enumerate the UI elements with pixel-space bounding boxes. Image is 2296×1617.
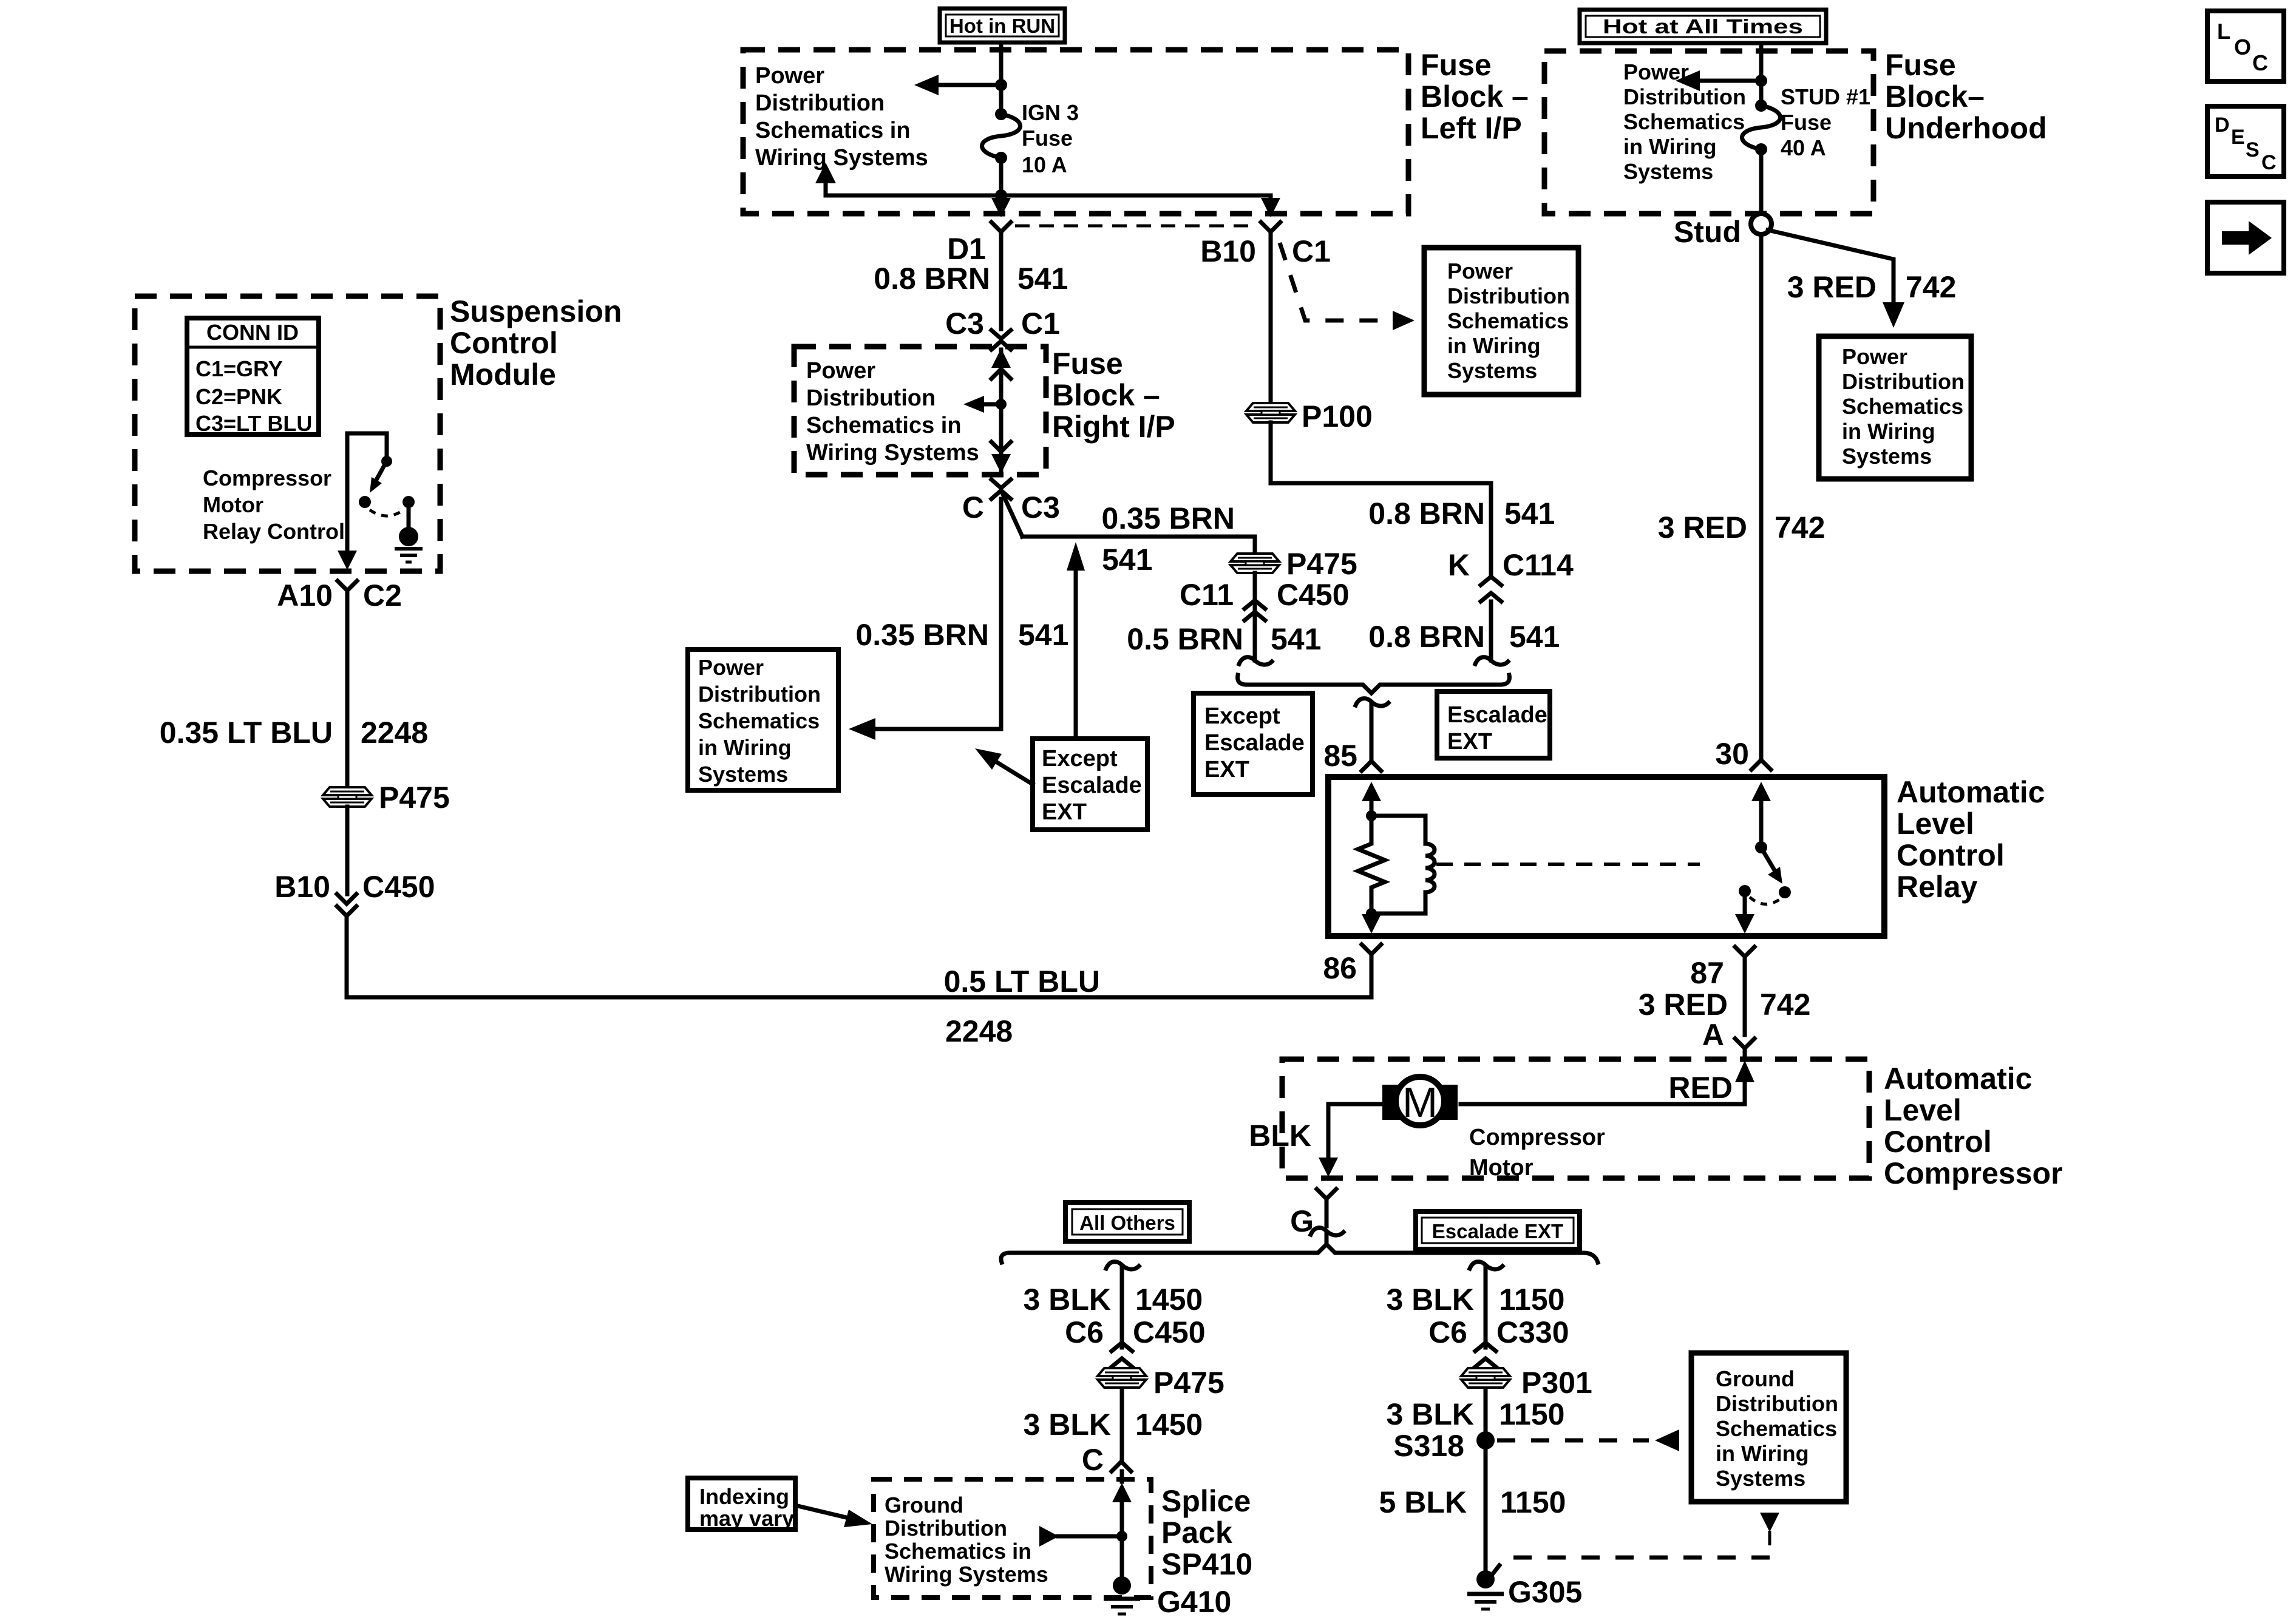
wire B10 exit arrow (1261, 195, 1280, 217)
svg-text:C114: C114 (1503, 548, 1574, 582)
node relay switch throw contact dot (1779, 886, 1791, 898)
svg-text:40 A: 40 A (1781, 135, 1826, 160)
svg-text:K: K (1448, 548, 1470, 582)
svg-text:85: 85 (1323, 739, 1357, 773)
wire end curl (C450 branch) (1239, 657, 1272, 665)
svg-text:Systems: Systems (698, 762, 788, 787)
svg-text:Underhood: Underhood (1885, 111, 2047, 145)
svg-text:Schematics: Schematics (1447, 308, 1569, 333)
svg-text:Ground: Ground (1716, 1366, 1795, 1391)
svg-text:A10: A10 (277, 578, 333, 612)
svg-text:Fuse: Fuse (1885, 48, 1956, 82)
wire arrowhead S318 reference (1655, 1429, 1679, 1451)
wire from Hot at All Times into fuse block (1759, 43, 1764, 104)
svg-text:Distribution: Distribution (1842, 369, 1965, 394)
svg-text:541: 541 (1271, 622, 1321, 656)
wire module internal switch feed (347, 433, 387, 457)
svg-text:in Wiring: in Wiring (1716, 1441, 1809, 1466)
wire exit arrow bottom (right IP box) (991, 442, 1011, 473)
compressor dashed box (1282, 1059, 1869, 1178)
node relay coil bottom junction dot (1366, 908, 1377, 919)
svg-text:EXT: EXT (1204, 757, 1249, 782)
svg-text:C: C (2261, 151, 2277, 174)
svg-text:P475: P475 (1286, 547, 1357, 581)
wire all-others branch to C450 (1120, 1267, 1124, 1347)
node connector half A10 (338, 581, 357, 591)
node connector half B10 (1261, 222, 1280, 232)
svg-text:C450: C450 (362, 870, 435, 904)
wire C1 into right IP fuse block (999, 350, 1004, 364)
svg-text:SP410: SP410 (1161, 1547, 1252, 1581)
svg-text:C1: C1 (1021, 307, 1060, 341)
svg-text:Except: Except (1042, 746, 1118, 771)
node brace splitting G to branches (1001, 1244, 1598, 1263)
svg-text:541: 541 (1509, 620, 1560, 654)
wire from Hot in RUN into fuse block (999, 42, 1004, 113)
svg-text:Pack: Pack (1161, 1516, 1232, 1550)
node splice S318 dot (1476, 1431, 1495, 1449)
svg-text:Automatic: Automatic (1884, 1062, 2032, 1096)
connector P100 (1246, 403, 1295, 422)
wire through right IP fuse block (999, 364, 1004, 475)
node connector B10/C450 double chevron down (337, 894, 356, 916)
svg-text:541: 541 (1017, 262, 1068, 296)
svg-text:Motor: Motor (203, 492, 263, 517)
node Escalade EXT callout (relay) (1437, 691, 1550, 758)
svg-text:Left I/P: Left I/P (1421, 111, 1522, 145)
svg-text:RED: RED (1668, 1071, 1733, 1105)
wire C330 to P301 (1484, 1372, 1488, 1578)
node connector pair C/C3 (991, 480, 1011, 499)
relay box (1328, 777, 1884, 936)
svg-text:E: E (2231, 126, 2245, 149)
svg-text:C: C (962, 490, 984, 524)
svg-text:Systems: Systems (1447, 358, 1537, 383)
svg-text:Control: Control (1897, 838, 2005, 872)
svg-text:Escalade: Escalade (1204, 730, 1305, 756)
svg-text:Wiring Systems: Wiring Systems (885, 1562, 1048, 1587)
svg-text:B10: B10 (274, 870, 330, 904)
node junction dot on IGN3 feed (995, 79, 1007, 91)
wire dashed reference from C1 (1280, 243, 1391, 320)
svg-text:Distribution: Distribution (755, 90, 885, 116)
node DESC legend box (2207, 106, 2284, 177)
svg-text:0.8 BRN: 0.8 BRN (1368, 497, 1485, 531)
ground ball G410 (1113, 1576, 1131, 1595)
svg-text:0.8 BRN: 0.8 BRN (874, 262, 990, 296)
wire B10 to P100 (1269, 232, 1273, 403)
svg-text:L: L (2217, 19, 2230, 44)
fuse IGN 3 10A (982, 108, 1021, 164)
svg-text:Block–: Block– (1885, 80, 1985, 114)
svg-text:D: D (2215, 114, 2230, 137)
wire relay pin 85 to box bottom arrow (1362, 914, 1381, 934)
svg-text:Relay Control: Relay Control (203, 519, 345, 544)
svg-text:Fuse: Fuse (1022, 126, 1073, 151)
svg-text:C6: C6 (1428, 1315, 1467, 1349)
fuse block left I/P dashed box (743, 50, 1408, 214)
wire to relay pin 85 (1370, 704, 1374, 760)
node Fuse Block Right I/P label (1052, 347, 1175, 444)
svg-text:IGN 3: IGN 3 (1022, 100, 1079, 125)
wire connector line C1 (thin dashed) (1015, 225, 1257, 228)
svg-text:742: 742 (1775, 510, 1825, 544)
svg-text:in Wiring: in Wiring (1447, 333, 1541, 358)
svg-text:3 BLK: 3 BLK (1024, 1283, 1111, 1317)
node connector half pin 86 (1362, 944, 1381, 954)
wire dashed ground reference with arrow (1492, 1513, 1779, 1575)
svg-text:Escalade EXT: Escalade EXT (1432, 1220, 1563, 1242)
node switch lower contact dot (359, 496, 371, 508)
node Except Escalade EXT callout (left) (1033, 739, 1147, 830)
wire arrowhead 3 RED reference (1883, 302, 1904, 328)
wire module output A10 (338, 433, 357, 570)
relay actuation dashed link (1436, 863, 1700, 866)
svg-text:Fuse: Fuse (1421, 48, 1492, 82)
svg-text:Systems: Systems (1842, 444, 1932, 469)
wire escalade branch to C330 (1484, 1267, 1488, 1347)
wire arrow to power distribution (left fuse box) (914, 75, 1001, 95)
svg-text:Block –: Block – (1052, 378, 1160, 412)
wire squiggle all-others branch (1106, 1262, 1139, 1269)
svg-text:Indexing: Indexing (699, 1484, 789, 1509)
svg-text:Suspension: Suspension (450, 294, 622, 328)
svg-text:2248: 2248 (945, 1014, 1013, 1048)
svg-text:Compressor: Compressor (1469, 1125, 1605, 1150)
wire fuse output vertical (999, 158, 1004, 195)
svg-text:1450: 1450 (1135, 1408, 1203, 1442)
node Suspension Control Module label (450, 294, 622, 392)
svg-text:Level: Level (1897, 807, 1974, 841)
wire entry arrow top (right IP box) (991, 348, 1011, 379)
suspension control module dashed box (135, 296, 440, 571)
wire A10 to P475 (345, 591, 350, 788)
svg-text:C3=LT BLU: C3=LT BLU (195, 411, 312, 436)
ground ball (module) (399, 527, 418, 546)
node connector K/C114 double chevron (1481, 577, 1501, 602)
svg-text:1150: 1150 (1500, 1485, 1566, 1519)
svg-text:C6: C6 (1065, 1315, 1104, 1349)
wire arrow to power distribution (underhood box) (1676, 70, 1761, 91)
label Compressor Motor Relay Control (203, 466, 345, 544)
node connector half pin 85 (1362, 761, 1381, 771)
svg-text:3 RED: 3 RED (1787, 270, 1877, 304)
svg-text:Compressor: Compressor (203, 466, 331, 490)
switch dashed gang arc (370, 510, 404, 516)
wire 0.5 LT BLU long run to pin 86 (347, 916, 1371, 997)
svg-text:Schematics: Schematics (1842, 394, 1963, 419)
svg-text:10 A: 10 A (1022, 152, 1067, 177)
wire RED feed with arrow into compressor (1461, 1060, 1754, 1104)
svg-text:C2: C2 (363, 578, 402, 612)
wire splice pack entry arrow (1112, 1483, 1132, 1578)
svg-text:C450: C450 (1133, 1315, 1206, 1349)
wire dashed S318 reference (1497, 1439, 1649, 1443)
node Splice Pack SP410 label (1161, 1484, 1252, 1581)
node Escalade EXT header box (1416, 1212, 1580, 1249)
svg-text:30: 30 (1715, 737, 1749, 771)
svg-text:All Others: All Others (1079, 1212, 1175, 1234)
connector P475 (center splice) (1231, 554, 1279, 573)
svg-text:742: 742 (1906, 270, 1956, 304)
svg-text:in Wiring: in Wiring (1842, 419, 1935, 444)
node connector pair C3/C1 (991, 330, 1011, 350)
node switch upper contact dot (381, 456, 392, 467)
wire end curl (C114 branch) (1475, 657, 1508, 665)
node connector half pin 30 (1751, 760, 1771, 770)
fuse STUD #1 40A (1742, 100, 1781, 155)
svg-text:C: C (2252, 50, 2268, 75)
wire pin 87 to compressor (1743, 957, 1747, 1035)
node ground distribution schematics box (1691, 1353, 1846, 1502)
wire horizontal 0.35 BRN 541 to P475 (1022, 537, 1255, 555)
svg-text:Block –: Block – (1421, 80, 1529, 114)
svg-text:P301: P301 (1521, 1366, 1592, 1400)
svg-text:CONN ID: CONN ID (206, 320, 299, 345)
svg-text:Schematics in: Schematics in (755, 118, 911, 143)
fuse block underhood dashed box (1544, 51, 1873, 214)
svg-text:Wiring Systems: Wiring Systems (806, 440, 979, 466)
svg-text:Distribution: Distribution (1716, 1391, 1838, 1416)
svg-text:0.5 BRN: 0.5 BRN (1127, 622, 1243, 656)
node All Others header box (1065, 1202, 1189, 1241)
svg-text:C: C (1082, 1443, 1104, 1477)
svg-text:541: 541 (1102, 543, 1152, 577)
ground symbol G305 (1467, 1594, 1504, 1609)
node relay switch output contact dot (1739, 885, 1751, 897)
svg-text:C1: C1 (1292, 234, 1331, 268)
node Automatic Level Control Compressor label (1884, 1062, 2063, 1190)
svg-text:Hot in RUN: Hot in RUN (949, 15, 1055, 37)
svg-text:EXT: EXT (1042, 799, 1087, 825)
svg-text:Except: Except (1204, 703, 1280, 729)
wire ground contact stem (407, 502, 411, 528)
wire below C114 (1489, 602, 1493, 660)
svg-text:541: 541 (1504, 497, 1555, 531)
svg-text:Power: Power (698, 655, 764, 680)
node CONN ID table (187, 318, 319, 436)
label STUD #1 Fuse 40 A (1781, 84, 1870, 160)
svg-text:may vary: may vary (699, 1506, 794, 1531)
svg-text:Ground: Ground (885, 1493, 963, 1517)
wire fuse to stud (1759, 149, 1764, 214)
wire arrow to power distribution (right IP box) (963, 396, 1001, 413)
node connector half pin A (1735, 1039, 1754, 1048)
splice pack dashed box (874, 1479, 1151, 1598)
svg-text:1150: 1150 (1499, 1283, 1564, 1317)
resistor (relay suppression) (1358, 816, 1385, 914)
wire D1 exit arrow (991, 198, 1011, 217)
svg-text:Power: Power (806, 358, 875, 384)
svg-text:Fuse: Fuse (1781, 110, 1832, 135)
svg-text:P475: P475 (379, 781, 450, 815)
svg-text:Power: Power (755, 63, 824, 89)
node junction dot on STUD#1 feed (1755, 75, 1767, 87)
svg-text:Motor: Motor (1469, 1155, 1533, 1181)
svg-text:Distribution: Distribution (806, 385, 936, 411)
wire pin C into splice pack (1120, 1471, 1124, 1482)
node switch ground-side contact dot (402, 496, 415, 508)
node connector half pin C (1112, 1462, 1131, 1471)
svg-text:3 BLK: 3 BLK (1387, 1283, 1474, 1317)
svg-text:Right I/P: Right I/P (1052, 410, 1175, 444)
switch driver arm with arrowhead (370, 464, 385, 493)
node Automatic Level Control Relay label (1897, 775, 2045, 904)
wire below P475 center (1253, 573, 1257, 660)
svg-text:B10: B10 (1200, 234, 1256, 268)
svg-text:D1: D1 (947, 232, 986, 266)
node LOC legend box (2207, 11, 2284, 81)
svg-text:3 BLK: 3 BLK (1024, 1408, 1111, 1442)
svg-text:Schematics: Schematics (1716, 1416, 1837, 1441)
svg-text:C1=GRY: C1=GRY (195, 356, 283, 381)
ground ball G305 (1476, 1570, 1495, 1588)
svg-text:A: A (1702, 1018, 1724, 1052)
relay switch arm with arrowhead (1762, 850, 1782, 884)
svg-text:Wiring Systems: Wiring Systems (755, 145, 928, 171)
svg-text:541: 541 (1018, 618, 1068, 652)
label Ground Distribution Schematics (splice pack) (885, 1493, 1048, 1587)
svg-text:0.35 BRN: 0.35 BRN (1101, 501, 1235, 535)
label Power Distribution Schematics (right IP box) (806, 358, 979, 466)
svg-text:C3: C3 (945, 307, 984, 341)
connector P475 (ground splice) (1098, 1368, 1146, 1388)
node brace joining 85 feeds (1238, 675, 1510, 693)
svg-text:G305: G305 (1508, 1575, 1582, 1609)
svg-text:86: 86 (1323, 951, 1357, 985)
svg-text:Distribution: Distribution (1447, 283, 1570, 308)
connector P301 (1461, 1368, 1510, 1388)
svg-text:3 RED: 3 RED (1639, 988, 1728, 1022)
wire BLK motor ground side (1319, 1104, 1382, 1177)
label Power Distribution Schematics (underhood box) (1623, 59, 1746, 184)
svg-text:Escalade: Escalade (1042, 773, 1142, 798)
svg-text:in Wiring: in Wiring (698, 735, 792, 760)
node Stud terminal circle (1751, 214, 1771, 234)
wire splice feed with right arrowhead (1039, 1526, 1122, 1547)
svg-text:5 BLK: 5 BLK (1379, 1485, 1467, 1519)
svg-text:Schematics in: Schematics in (806, 413, 962, 438)
node Fuse Block Left I/P label (1421, 48, 1529, 145)
svg-text:Power: Power (1447, 259, 1513, 283)
wire squiggle below G (1311, 1228, 1343, 1235)
svg-text:C2=PNK: C2=PNK (195, 384, 282, 409)
node Hot in RUN header box (940, 8, 1065, 42)
node Hot at All Times header box (1580, 10, 1826, 43)
svg-text:1450: 1450 (1135, 1283, 1203, 1317)
wire stud diagonal to 3 RED reference (1768, 230, 1894, 303)
fuse block right I/P dashed box (794, 347, 1046, 475)
svg-text:Fuse: Fuse (1052, 347, 1123, 381)
svg-text:P100: P100 (1302, 399, 1373, 433)
svg-text:Systems: Systems (1623, 159, 1713, 184)
svg-text:S: S (2246, 138, 2260, 161)
svg-text:Relay: Relay (1897, 870, 1978, 904)
relay switch dashed arc (1750, 897, 1781, 904)
svg-text:Schematics: Schematics (698, 708, 820, 733)
node connector half pin 87 (1735, 947, 1754, 957)
wire pin A stub (1743, 1048, 1747, 1057)
wire 0.35 BRN arrow into power distribution box (849, 718, 1001, 740)
svg-text:Escalade: Escalade (1447, 702, 1547, 728)
label Power Distribution Schematics (left fuse box) (755, 63, 928, 171)
node arrow legend box (2207, 202, 2284, 273)
wire P100 down and across to C114 branch (1271, 422, 1491, 577)
node connector half pin G (1317, 1189, 1336, 1199)
svg-text:3 BLK: 3 BLK (1387, 1397, 1474, 1431)
svg-text:742: 742 (1760, 988, 1810, 1022)
svg-text:Compressor: Compressor (1884, 1156, 2063, 1190)
node connector C6/C330 double chevron (1475, 1343, 1496, 1367)
node relay coil top junction dot (1366, 810, 1377, 821)
wire C3 vertical 0.35 BRN (999, 499, 1004, 729)
ground symbol (module) (395, 549, 423, 562)
node connector half D1 (991, 222, 1011, 232)
node junction dot in right IP box (996, 399, 1007, 410)
node Indexing may vary box (688, 1478, 795, 1531)
svg-text:3 RED: 3 RED (1658, 510, 1747, 544)
wire indexing callout arrow (795, 1505, 872, 1527)
svg-text:EXT: EXT (1447, 729, 1492, 754)
wire P475 to C450 (345, 807, 350, 894)
svg-text:BLK: BLK (1249, 1119, 1311, 1153)
wire callout arrow up to 0.35 BRN wire (1067, 542, 1085, 739)
wire diagonal branch to P475 (1002, 492, 1022, 537)
node power distribution schematics box (left mid) (688, 649, 838, 790)
svg-text:Distribution: Distribution (698, 682, 821, 707)
relay coil (1371, 816, 1435, 914)
svg-text:C450: C450 (1277, 578, 1350, 612)
svg-text:M: M (1402, 1079, 1438, 1126)
node connector C11/C450 double chevron (1245, 600, 1265, 620)
connector P475 (left splice) (323, 787, 372, 807)
wire relay pin 87 internal (1735, 896, 1754, 934)
svg-text:P475: P475 (1153, 1366, 1224, 1400)
svg-text:STUD #1: STUD #1 (1781, 84, 1870, 109)
svg-text:Module: Module (450, 358, 556, 392)
wire callout arrow to C3 wire corner (975, 748, 1033, 784)
svg-text:2248: 2248 (361, 716, 428, 750)
wire squiggle escalade branch (1470, 1262, 1503, 1269)
svg-text:0.5 LT BLU: 0.5 LT BLU (944, 964, 1100, 998)
svg-text:Splice: Splice (1161, 1484, 1251, 1518)
svg-text:Control: Control (450, 326, 558, 360)
label IGN 3 Fuse 10 A (1022, 100, 1079, 177)
node Except Escalade EXT callout (center) (1194, 693, 1313, 795)
svg-text:0.8 BRN: 0.8 BRN (1368, 620, 1485, 654)
svg-text:O: O (2234, 35, 2251, 59)
wire stud to relay pin 30 (1759, 234, 1764, 760)
svg-text:C11: C11 (1180, 578, 1234, 612)
svg-text:Automatic: Automatic (1897, 775, 2045, 809)
label Compressor Motor (1469, 1125, 1605, 1181)
svg-text:1150: 1150 (1499, 1397, 1564, 1431)
svg-text:Level: Level (1884, 1093, 1961, 1127)
svg-text:Systems: Systems (1716, 1466, 1805, 1491)
ground symbol G410 (1104, 1599, 1140, 1614)
svg-text:Power: Power (1842, 344, 1907, 369)
node junction dot fuse output (995, 189, 1007, 202)
motor M (compressor motor) (1382, 1077, 1458, 1126)
svg-text:C330: C330 (1496, 1315, 1569, 1349)
svg-text:Schematics: Schematics (1623, 109, 1745, 134)
svg-text:C3: C3 (1021, 490, 1060, 524)
svg-text:in Wiring: in Wiring (1623, 134, 1717, 159)
svg-text:0.35 LT BLU: 0.35 LT BLU (160, 716, 333, 750)
wire fuse output horizontal bus (826, 194, 1271, 198)
svg-text:Distribution: Distribution (1623, 84, 1746, 109)
svg-text:Control: Control (1884, 1125, 1992, 1159)
